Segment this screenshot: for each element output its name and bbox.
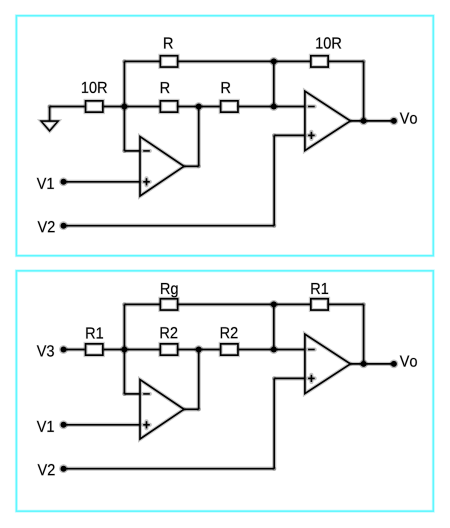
- label V2 (panel 2): [38, 464, 55, 475]
- wire center column upper 2: [272, 304, 276, 349]
- wire top feedback left: [124, 59, 159, 63]
- label R (middle): [161, 82, 170, 93]
- op-amp U1 minus sign: [143, 149, 150, 153]
- resistor R (middle right): [221, 101, 238, 112]
- label 10R (right): [316, 37, 341, 48]
- label R1 (left): [86, 328, 103, 339]
- wire bend down to output: [362, 61, 366, 121]
- wire ground stem: [48, 107, 52, 122]
- op-amp U3 plus sign: [143, 423, 150, 427]
- wire op4 output: [350, 362, 394, 366]
- wire to op3 minus: [124, 392, 140, 396]
- label Vo: [400, 113, 417, 124]
- wire V1 to op3 plus: [64, 423, 141, 427]
- resistor Rg: [160, 299, 177, 310]
- wire Rg to node top center: [179, 302, 311, 306]
- wire top feedback left (Rg): [124, 302, 159, 306]
- wire R middle to node B: [179, 104, 220, 108]
- node B: [194, 102, 203, 111]
- label Rg: [161, 283, 178, 297]
- wire node A2 column vertical: [122, 304, 126, 394]
- label 10R (left): [82, 82, 107, 93]
- resistor R2 (middle): [160, 344, 177, 355]
- resistor R1 (left): [86, 344, 103, 355]
- label V3: [37, 345, 54, 356]
- node A2: [120, 345, 129, 354]
- wire op3 feedback vertical: [197, 350, 201, 410]
- label R1 (top right): [311, 283, 328, 294]
- wire to op2 plus: [274, 133, 305, 137]
- node C: [269, 102, 278, 111]
- node C2: [269, 345, 278, 354]
- wire op2 output: [350, 119, 394, 123]
- wire bend down to output 2: [362, 304, 366, 364]
- resistor 10R (right): [311, 56, 328, 67]
- wire V3 to R1: [64, 347, 85, 351]
- terminal V2 (panel 2): [59, 464, 68, 473]
- ground: [41, 121, 58, 131]
- wire V2 vertical (panel 2): [272, 378, 276, 468]
- wire node C2 to op4 minus: [274, 347, 305, 351]
- wire V2 horizontal (panel 2): [64, 467, 275, 471]
- wire top feedback right: [179, 59, 311, 63]
- label Vo (panel 2): [400, 356, 417, 367]
- wire node A column vertical: [122, 61, 126, 150]
- label R (middle right): [222, 82, 231, 93]
- wire op1 output: [184, 164, 199, 168]
- op-amp U4 minus sign: [308, 348, 315, 352]
- op-amp U2 minus sign: [308, 105, 315, 109]
- terminal V3: [59, 345, 68, 354]
- panel 1 frame: [16, 16, 433, 256]
- label R2 (middle right): [221, 327, 238, 338]
- wire 10R right to bend: [329, 59, 364, 63]
- panel 2 frame: [16, 271, 433, 511]
- wire to op4 plus: [274, 376, 305, 380]
- wire op3 output: [184, 407, 199, 411]
- terminal Vo: [390, 117, 399, 126]
- node output feedback 2: [359, 360, 368, 369]
- terminal Vo (panel 2): [390, 360, 399, 369]
- wire node C to op2 minus: [274, 104, 305, 108]
- wire center column upper: [272, 61, 276, 106]
- wire R to node C: [239, 104, 274, 108]
- node A: [120, 102, 129, 111]
- wire op1 feedback vertical: [197, 107, 201, 167]
- wire V2 vertical: [272, 135, 276, 225]
- label V2: [38, 221, 55, 232]
- wire 10R to node A: [104, 104, 160, 108]
- op-amp U3 minus sign: [143, 392, 150, 396]
- resistor R1 (top right): [311, 299, 328, 310]
- wire R2 to node C2: [239, 347, 274, 351]
- op-amp U2: [305, 91, 351, 150]
- label R (top): [164, 38, 173, 49]
- label V1 (panel 2): [37, 421, 54, 432]
- label R2 (middle): [161, 327, 178, 338]
- wire to op1 minus: [124, 149, 140, 153]
- op-amp U4 plus sign: [308, 376, 315, 380]
- resistor R (top): [160, 56, 177, 67]
- op-amp U1 plus sign: [143, 180, 150, 184]
- wire V2 horizontal: [64, 224, 275, 228]
- resistor 10R (left): [86, 101, 103, 112]
- resistor R2 (middle right): [221, 344, 238, 355]
- terminal V1: [59, 177, 68, 186]
- node B2: [194, 345, 203, 354]
- op-amp U1: [140, 137, 184, 196]
- wire ground to R left: [50, 104, 85, 108]
- wire R1 to node A2: [104, 347, 160, 351]
- terminal V2: [59, 221, 68, 230]
- terminal V1 (panel 2): [59, 420, 68, 429]
- wire R1 to bend 2: [329, 302, 364, 306]
- wire R2 to node B2: [179, 347, 220, 351]
- op-amp U4: [305, 334, 351, 393]
- op-amp U2 plus sign: [308, 133, 315, 137]
- label V1: [37, 178, 54, 189]
- node output feedback: [359, 117, 368, 126]
- node top center: [269, 57, 278, 66]
- wire V1 to op1 plus: [64, 180, 141, 184]
- resistor R (middle): [160, 101, 177, 112]
- node top center 2: [269, 300, 278, 309]
- op-amp U3: [140, 380, 184, 439]
